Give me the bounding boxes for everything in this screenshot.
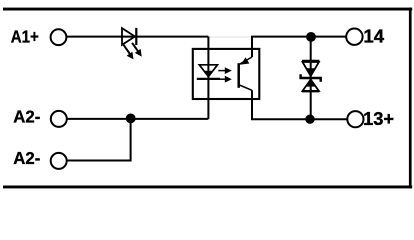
wire A2 to optocoupler xyxy=(67,118,209,120)
phototransistor Q1 collector lead xyxy=(239,57,252,64)
wire opto LED vertical (input to A2 net) xyxy=(207,37,209,119)
phototransistor Q1 collector arrowhead xyxy=(241,57,250,64)
TVS top triangle (pointing down) xyxy=(303,62,319,76)
TVS bottom triangle filled apex xyxy=(306,80,315,87)
opto LED triangle xyxy=(199,65,217,77)
terminal A1+ xyxy=(51,29,67,45)
TVS bottom bar xyxy=(302,90,319,92)
opto LED cathode bar xyxy=(197,78,220,80)
junction node top (14 net) xyxy=(306,32,316,42)
terminal 13+ xyxy=(347,111,363,127)
photon arrow 2 xyxy=(218,76,232,83)
LED D1 light arrow 1 xyxy=(124,45,134,60)
terminal 14 xyxy=(346,29,362,45)
svg-text:A2-: A2- xyxy=(13,148,40,168)
svg-text:A1+: A1+ xyxy=(11,27,39,47)
frame right border xyxy=(409,8,412,189)
svg-text:13+: 13+ xyxy=(363,109,394,129)
wire collector to terminal 14 xyxy=(252,37,346,57)
svg-text:A2-: A2- xyxy=(13,106,40,126)
TVS middle zener bar xyxy=(301,74,321,82)
TVS top bar xyxy=(302,60,319,62)
phototransistor Q1 emitter lead xyxy=(239,85,252,90)
wire A2 second to junction xyxy=(67,119,131,161)
frame bottom border xyxy=(3,186,412,189)
junction node bottom (13+ net) xyxy=(305,115,314,124)
phototransistor Q1 base bar xyxy=(237,63,240,88)
terminal A2- second xyxy=(51,153,67,169)
LED D1 cathode bar xyxy=(135,28,137,45)
optocoupler U1 box xyxy=(193,49,259,99)
TVS bottom triangle (pointing up) xyxy=(303,80,319,92)
photon arrow 1 xyxy=(218,67,232,74)
terminal A2- first xyxy=(51,111,67,127)
LED D1 triangle xyxy=(122,28,135,45)
opto LED filled apex xyxy=(204,71,213,77)
LED D1 light arrow 2 xyxy=(132,43,142,57)
TVS suppressor diode V1 wire xyxy=(310,37,312,119)
wire A1+ to optocoupler input xyxy=(66,36,208,38)
TVS top triangle filled apex xyxy=(306,68,315,76)
junction node A2 xyxy=(126,114,136,124)
svg-text:14: 14 xyxy=(363,26,384,46)
wire faint gap trace xyxy=(209,36,251,38)
frame top border xyxy=(3,8,412,11)
wire emitter to terminal 13+ xyxy=(252,90,347,119)
